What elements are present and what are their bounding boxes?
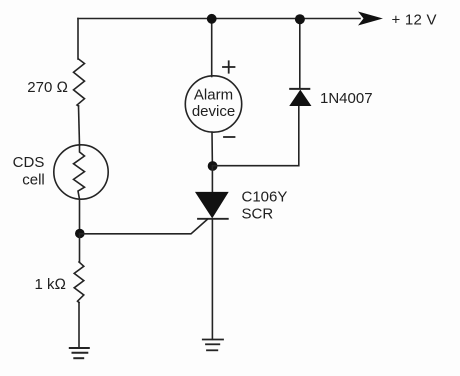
svg-text:SCR: SCR <box>242 206 274 223</box>
wire alarm device to node B <box>211 132 213 166</box>
svg-text:Alarm: Alarm <box>194 87 233 104</box>
SCR Q1 triangle (anode->cathode) <box>196 192 228 217</box>
diode D1 1N4007 triangle pointing up <box>290 91 310 106</box>
svg-text:C106Y: C106Y <box>242 189 288 206</box>
node top-middle junction dot <box>207 14 217 24</box>
wire SCR cathode to ground <box>211 219 213 339</box>
wire resistor to CDS cell <box>79 106 80 145</box>
node top-right junction dot <box>295 14 305 24</box>
svg-text:+ 12 V: + 12 V <box>392 12 437 29</box>
resistor R2 1 kilohm <box>74 262 84 303</box>
wire top rail <box>78 18 360 20</box>
svg-text:cell: cell <box>22 172 45 189</box>
arrowhead +12V supply <box>358 12 383 26</box>
svg-text:device: device <box>192 103 235 120</box>
diode cathode bar <box>290 88 309 90</box>
ground (middle, under SCR) <box>203 340 223 351</box>
CDS cell internal zigzag <box>74 145 85 234</box>
svg-text:270 Ω: 270 Ω <box>27 79 68 96</box>
ground (left) <box>70 348 89 358</box>
svg-text:CDS: CDS <box>13 154 45 171</box>
minus polarity mark <box>224 136 235 138</box>
svg-text:1 kΩ: 1 kΩ <box>34 276 66 293</box>
wire gate run: junction to SCR gate <box>80 219 208 234</box>
wire node B down to SCR anode <box>211 166 213 192</box>
wire node B right to diode branch <box>213 106 299 166</box>
svg-text:1N4007: 1N4007 <box>320 90 373 107</box>
plus polarity mark <box>223 61 235 72</box>
CDS cell photoresistor circle <box>54 145 108 199</box>
wire diode cathode up to rail junction <box>299 19 301 88</box>
wire 1k resistor to ground <box>78 303 80 348</box>
wire middle vertical rail to alarm device <box>211 19 213 77</box>
node B junction dot (alarm / SCR / diode return) <box>208 161 218 171</box>
wire left vertical from rail to 270-ohm resistor <box>77 19 79 60</box>
resistor R1 270 ohm <box>74 59 85 106</box>
alarm device circle <box>185 76 241 132</box>
node A junction dot (CDS / 1k / gate) <box>75 229 85 239</box>
wire junction down to 1k resistor <box>79 234 81 263</box>
SCR cathode bar <box>198 218 228 220</box>
